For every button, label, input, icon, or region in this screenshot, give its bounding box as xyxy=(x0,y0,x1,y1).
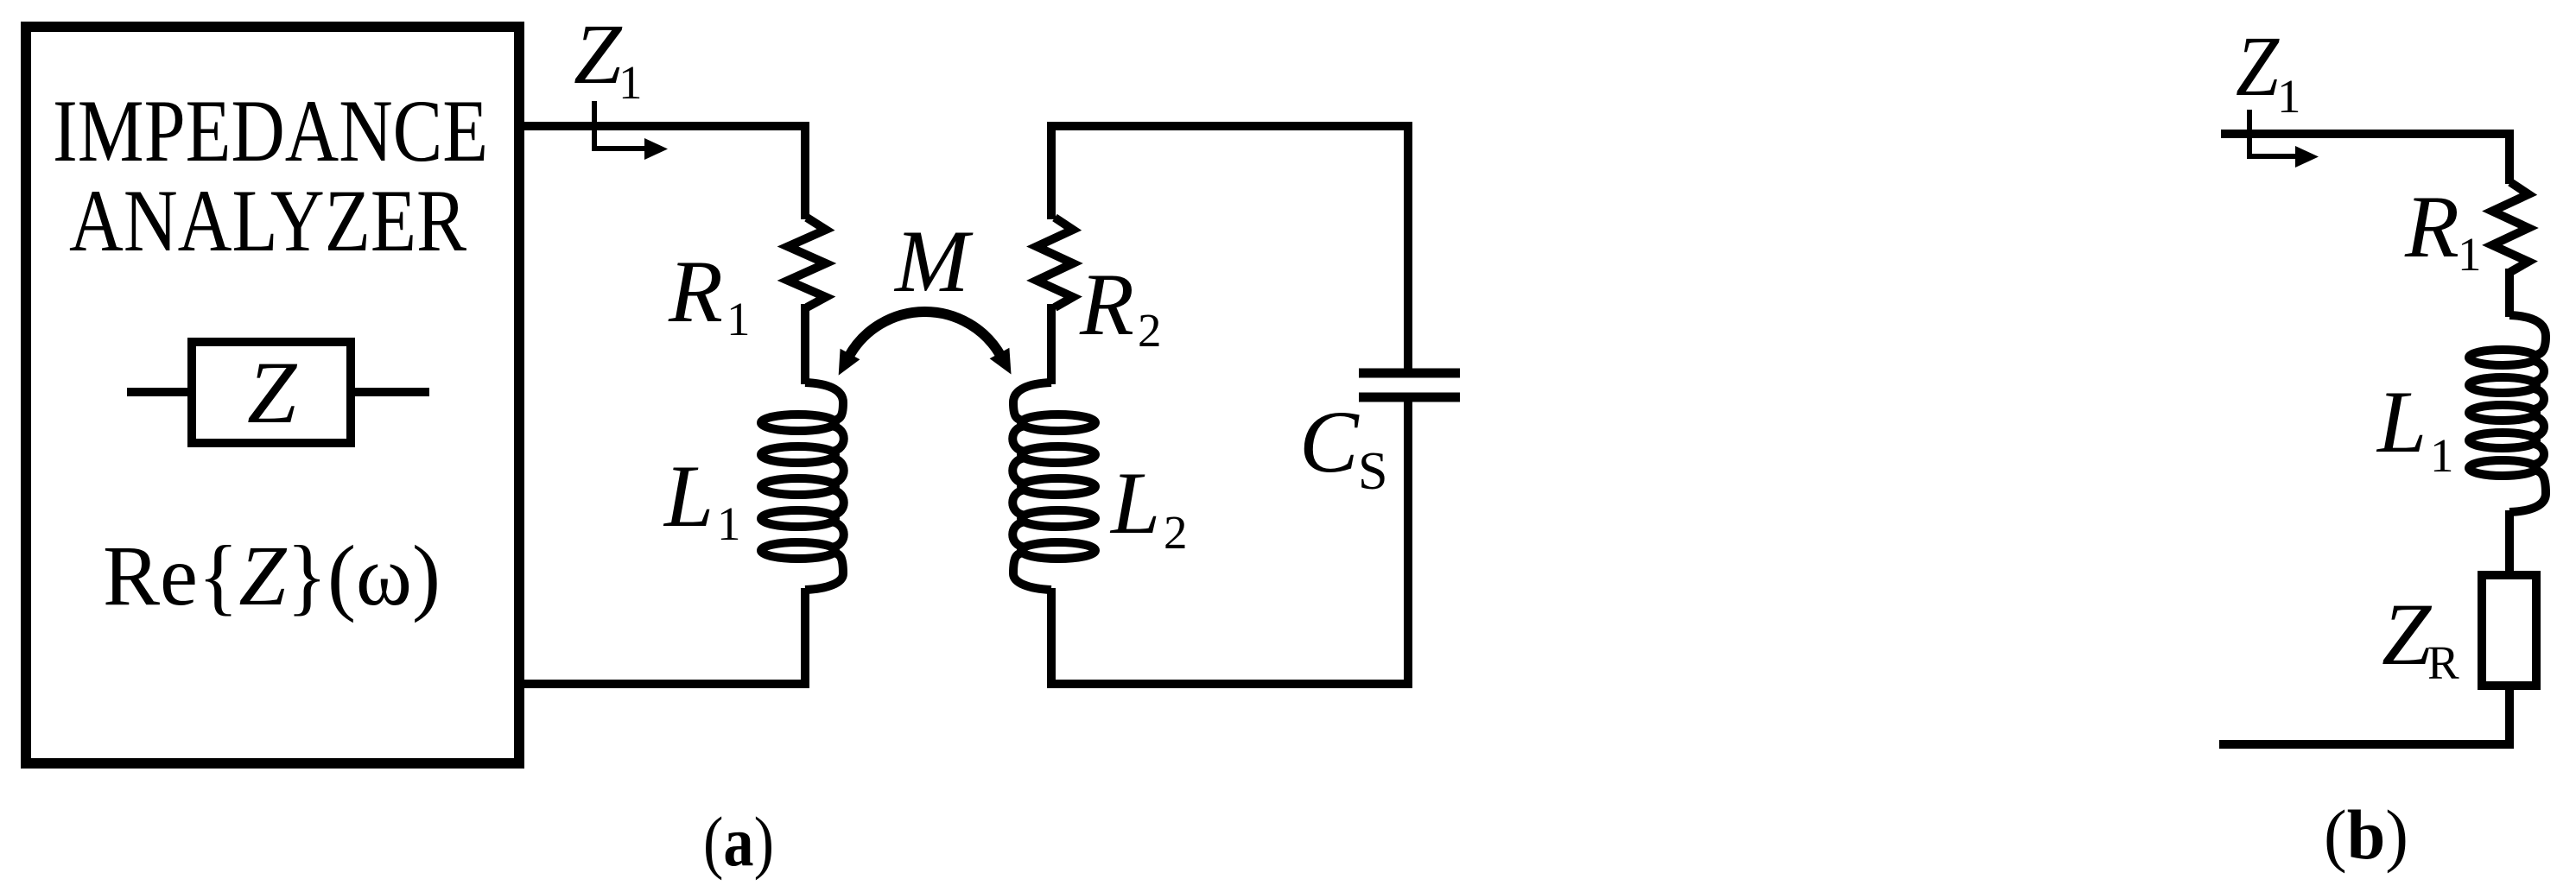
wire R2 to L2 (a) xyxy=(1047,304,1056,384)
svg-text:R: R xyxy=(668,243,723,341)
Z1 arrow (b) xyxy=(2249,110,2295,156)
inductor L2 (a) xyxy=(1021,414,1095,431)
resistor R1 (b) xyxy=(2492,182,2528,272)
wire right vert upper (a) xyxy=(1404,122,1412,373)
Z box right lead xyxy=(355,388,429,396)
svg-text:C: C xyxy=(1299,393,1360,491)
svg-text:Z: Z xyxy=(2236,18,2280,114)
svg-text:M: M xyxy=(893,212,974,311)
wire top-left (a) xyxy=(519,122,805,130)
wire R1 to L1 (b) xyxy=(2505,269,2514,317)
wire bottom right loop (a) xyxy=(1047,680,1408,688)
svg-text:1: 1 xyxy=(2430,429,2454,482)
svg-text:S: S xyxy=(1358,442,1387,501)
svg-text:R: R xyxy=(1079,256,1134,354)
svg-text:Z: Z xyxy=(574,6,623,102)
svg-text:2: 2 xyxy=(1164,506,1188,559)
wire vert to R1 (b) xyxy=(2505,130,2514,184)
resistor R1 (a) xyxy=(788,218,826,307)
wire ZR to bottom (b) xyxy=(2505,686,2514,749)
Z box left lead xyxy=(127,388,187,396)
svg-text:1: 1 xyxy=(2458,228,2482,281)
svg-text:L: L xyxy=(663,447,714,546)
svg-text:1: 1 xyxy=(619,56,643,109)
svg-text:1: 1 xyxy=(726,293,751,345)
svg-text:Z: Z xyxy=(2382,585,2433,684)
svg-text:R: R xyxy=(2427,636,2459,689)
impedance analyzer box xyxy=(26,27,519,763)
svg-text:Z: Z xyxy=(247,344,298,442)
svg-text:(a): (a) xyxy=(703,802,774,881)
capacitor Cs plate bottom xyxy=(1359,393,1460,402)
mutual inductance arrow M xyxy=(848,312,1001,357)
svg-text:1: 1 xyxy=(2277,70,2301,123)
wire bottom-left (a) xyxy=(519,680,809,688)
impedance ZR box xyxy=(2482,575,2536,686)
resistor R2 (a) xyxy=(1037,218,1073,307)
svg-text:L: L xyxy=(1109,454,1160,553)
wire L1 to bottom (a) xyxy=(801,588,809,688)
wire R1 to L1 (a) xyxy=(801,304,809,384)
wire L1 to ZR (b) xyxy=(2505,510,2514,575)
capacitor Cs plate top xyxy=(1359,369,1460,378)
svg-text:Re{Z}(ω): Re{Z}(ω) xyxy=(103,528,441,623)
inductor L1 (b) xyxy=(2469,350,2536,365)
wire right vert lower (a) xyxy=(1404,397,1412,688)
wire bottom (b) xyxy=(2219,740,2509,749)
wire top (b) xyxy=(2221,130,2509,138)
svg-text:1: 1 xyxy=(717,497,741,550)
inductor L1 (a) xyxy=(761,414,835,431)
svg-text:IMPEDANCE: IMPEDANCE xyxy=(53,82,488,180)
wire top right loop (a) xyxy=(1047,122,1408,130)
svg-text:ANALYZER: ANALYZER xyxy=(69,172,466,270)
wire L2 to bottom (a) xyxy=(1047,588,1056,688)
wire vert to R1 (a) xyxy=(801,122,809,219)
impedance element Z box xyxy=(192,342,351,443)
Z1 arrow (a) xyxy=(594,101,644,149)
svg-text:2: 2 xyxy=(1138,304,1162,357)
svg-text:(b): (b) xyxy=(2324,795,2408,874)
svg-text:L: L xyxy=(2376,373,2427,471)
wire vert to R2 (a) xyxy=(1047,122,1056,219)
svg-text:R: R xyxy=(2404,178,2459,276)
